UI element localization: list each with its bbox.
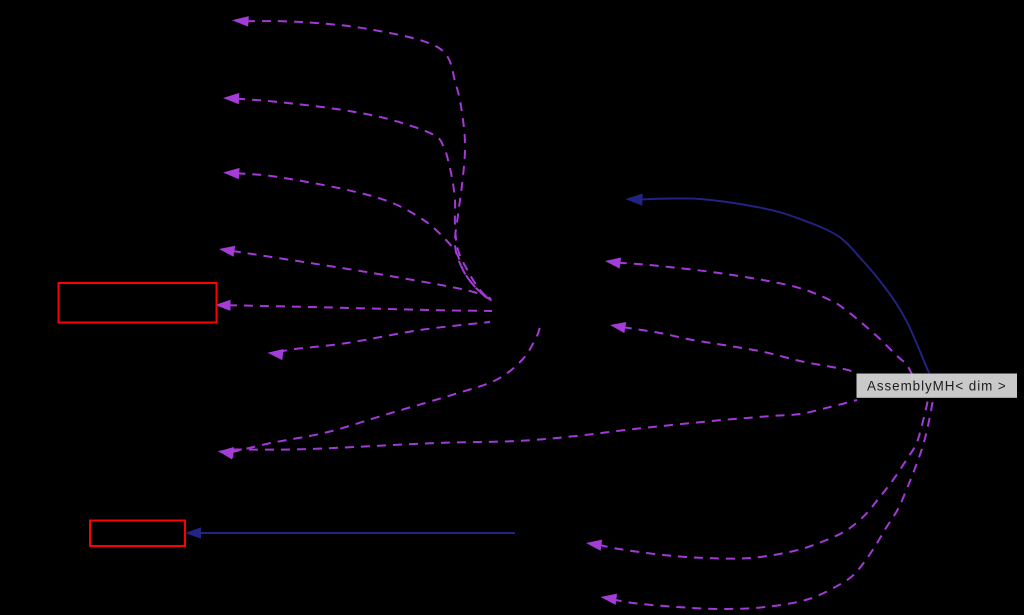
edge AssemblyMH to A7 <box>233 400 857 450</box>
edge hub to A3 <box>236 173 492 302</box>
edge AssemblyMH to A8 <box>599 400 928 559</box>
edge AssemblyMH to A11 <box>618 263 912 374</box>
arrowhead A7 (edge from AssemblyMH) <box>218 447 234 458</box>
edge hub to A2 <box>236 99 491 301</box>
edge AssemblyMH to A10 (hub) <box>623 327 857 374</box>
arrowhead A5 <box>215 300 231 311</box>
arrowhead A7 (edge from hub) <box>218 449 234 460</box>
svg-text:AssemblyMH< dim >: AssemblyMH< dim > <box>867 379 1007 394</box>
arrowhead A6 <box>268 349 284 360</box>
arrowhead A2 <box>223 93 239 104</box>
red box 1 <box>59 283 217 323</box>
arrowhead A10 <box>610 322 626 333</box>
arrowhead A4 <box>219 246 235 257</box>
blue inheritance edge to red box 2 <box>198 532 515 534</box>
edge hub to A6 <box>280 322 490 354</box>
edge hub to A4 <box>232 251 494 302</box>
blue arrowhead A13 <box>185 527 201 539</box>
arrowhead A9 <box>601 594 618 605</box>
blue arrowhead A12 <box>626 194 643 206</box>
edge hub to A5 (red box 1) <box>228 305 492 311</box>
arrowhead A3 <box>223 168 240 179</box>
edge hub to A7 <box>231 327 540 452</box>
node AssemblyMH< dim > <box>857 374 1018 398</box>
blue inheritance edge AssemblyMH to A12 <box>640 198 929 373</box>
arrowhead A1 <box>232 16 249 27</box>
edge AssemblyMH to A9 <box>613 400 933 609</box>
red box 2 <box>90 521 185 547</box>
edge hub to A1 <box>246 21 491 299</box>
arrowhead A11 <box>605 258 621 269</box>
arrowhead A8 <box>586 540 602 551</box>
